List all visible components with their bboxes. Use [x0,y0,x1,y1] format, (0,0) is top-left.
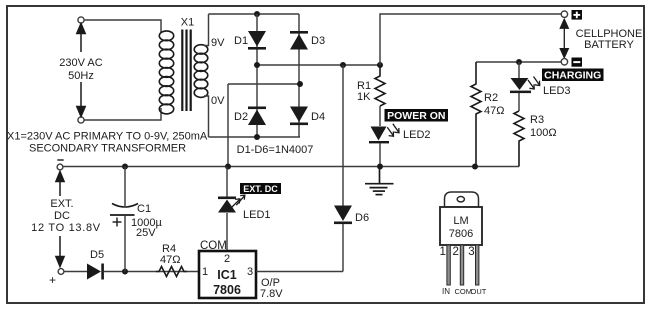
LED LED2 [369,127,389,144]
svg-text:LM: LM [453,215,468,227]
wire + terminal to D5 [64,271,87,273]
diode D1 [248,31,266,50]
svg-text:X1: X1 [181,17,194,29]
wire ground bus [63,166,519,168]
node D3-D4 junction [297,81,303,87]
svg-text:IC1: IC1 [217,268,237,282]
svg-text:2: 2 [224,253,230,265]
label 230V AC 50Hz [56,52,106,82]
svg-text:3: 3 [247,266,253,278]
wire D3/D4 column [298,14,300,137]
wire D6 to output [342,224,344,272]
transformer primary winding [159,31,173,114]
svg-text:R3: R3 [530,114,544,126]
svg-text:2: 2 [453,246,459,258]
diode D5 [87,264,104,280]
LED LED3 [518,62,520,78]
wire C1 bottom [124,215,126,272]
node D6 branch [340,62,346,68]
svg-text:EXT. DC: EXT. DC [243,184,278,194]
svg-text:BATTERY: BATTERY [584,39,634,51]
svg-text:LED2: LED2 [403,129,431,141]
svg-text:IN: IN [442,287,450,296]
wire D1/D2 column [256,14,258,137]
svg-text:POWER ON: POWER ON [387,110,445,122]
svg-text:OUT: OUT [471,287,487,296]
LM7806 legs [447,245,479,285]
svg-text:25V: 25V [136,227,156,239]
svg-text:0V: 0V [211,95,225,107]
node R1 top [377,62,383,68]
svg-text:R2: R2 [484,92,498,104]
wire DC+ bus [257,64,380,66]
svg-text:1K: 1K [357,91,371,103]
battery - terminal [561,59,567,65]
svg-text:D3: D3 [311,35,325,47]
IC1 7806 [199,251,256,298]
svg-text:47Ω: 47Ω [484,105,504,117]
svg-text:D2: D2 [234,111,248,123]
wire DC- riser to ground bus [227,84,229,166]
node D1-D2 junction [254,62,260,68]
wire LED2 to ground bus [379,143,381,166]
svg-text:LED3: LED3 [543,85,571,97]
svg-text:1: 1 [202,266,208,278]
ext dc + terminal [58,269,64,275]
svg-text:50Hz: 50Hz [68,70,94,82]
battery + terminal [561,11,567,17]
ext dc polarity arrow [56,172,64,267]
LM7806 tab hole [457,197,464,202]
svg-text:100Ω: 100Ω [530,127,557,139]
resistor R4 [156,267,187,277]
wire mains top to primary [84,20,161,32]
diode D3 [290,31,308,50]
LM7806 body [440,207,482,245]
svg-text:D5: D5 [90,249,104,261]
transformer core [182,30,190,112]
svg-text:SECONDARY TRANSFORMER: SECONDARY TRANSFORMER [29,143,186,155]
resistor R3 [514,111,524,167]
diode D6 [342,65,344,206]
svg-text:7806: 7806 [213,283,241,297]
diode D4 [290,107,308,126]
wire battery - bus [476,61,561,63]
node D2 bottom [254,134,260,140]
svg-text:C1: C1 [137,203,151,215]
svg-text:COM: COM [455,287,473,296]
mains double arrow [77,24,85,117]
mains bottom terminal [78,117,84,123]
svg-text:DC: DC [54,210,70,222]
wire battery + link [380,14,561,65]
wire AC top bus [209,13,300,15]
svg-text:COM: COM [200,240,227,252]
node LED3 top [516,59,522,65]
node C1 bottom [122,269,128,275]
wire IC1 output [256,271,343,273]
svg-text:7.8V: 7.8V [260,288,283,300]
svg-text:D1: D1 [234,35,248,47]
label POWER ON [385,109,449,122]
node C1 top [122,164,128,170]
label EXT. DC [240,183,281,194]
svg-text:D6: D6 [355,212,369,224]
svg-text:LED1: LED1 [243,209,271,221]
wire D5 to IC1 [104,271,199,273]
node DC- riser junction [225,164,231,170]
svg-text:+: + [49,273,56,287]
wire 9V tap riser [204,14,209,46]
svg-text:D1-D6=1N4007: D1-D6=1N4007 [237,144,314,156]
wire 0V tap drop [204,96,209,137]
svg-text:3: 3 [468,246,474,258]
node ground symbol [377,164,383,170]
svg-text:D4: D4 [311,111,325,123]
resistor R1 [375,65,385,106]
LM7806 package tab [445,192,479,207]
svg-text:EXT.: EXT. [50,198,73,210]
svg-text:X1=230V AC PRIMARY TO 0-9V, 25: X1=230V AC PRIMARY TO 0-9V, 250mA [7,131,208,143]
label CHARGING [542,69,604,82]
wire DC- bus [228,83,300,85]
svg-text:1: 1 [440,246,446,258]
wire LED1 to IC1 pin2 [226,213,228,251]
battery polarity arrow [560,19,568,57]
capacitor C1 [124,167,126,207]
svg-text:230V AC: 230V AC [59,57,102,69]
svg-text:CHARGING: CHARGING [544,69,601,81]
transformer secondary winding [194,45,208,98]
svg-text:12 TO 13.8V: 12 TO 13.8V [31,222,101,234]
node D1 top [254,11,260,17]
LED LED1 [226,167,228,199]
resistor R2 [471,62,481,167]
svg-text:9V: 9V [211,37,225,49]
wire mains bottom to primary [84,108,161,120]
battery + label box [572,10,583,20]
svg-text:7806: 7806 [449,228,473,240]
diode D2 [248,107,266,126]
ground [365,167,394,195]
battery - label box [572,58,583,67]
wire LED3 to R3 [518,93,520,111]
ext dc - terminal [57,159,63,161]
mains top terminal [78,17,84,23]
wire AC bottom bus [209,136,301,138]
svg-text:47Ω: 47Ω [160,254,180,266]
node R2 bottom [472,164,478,170]
